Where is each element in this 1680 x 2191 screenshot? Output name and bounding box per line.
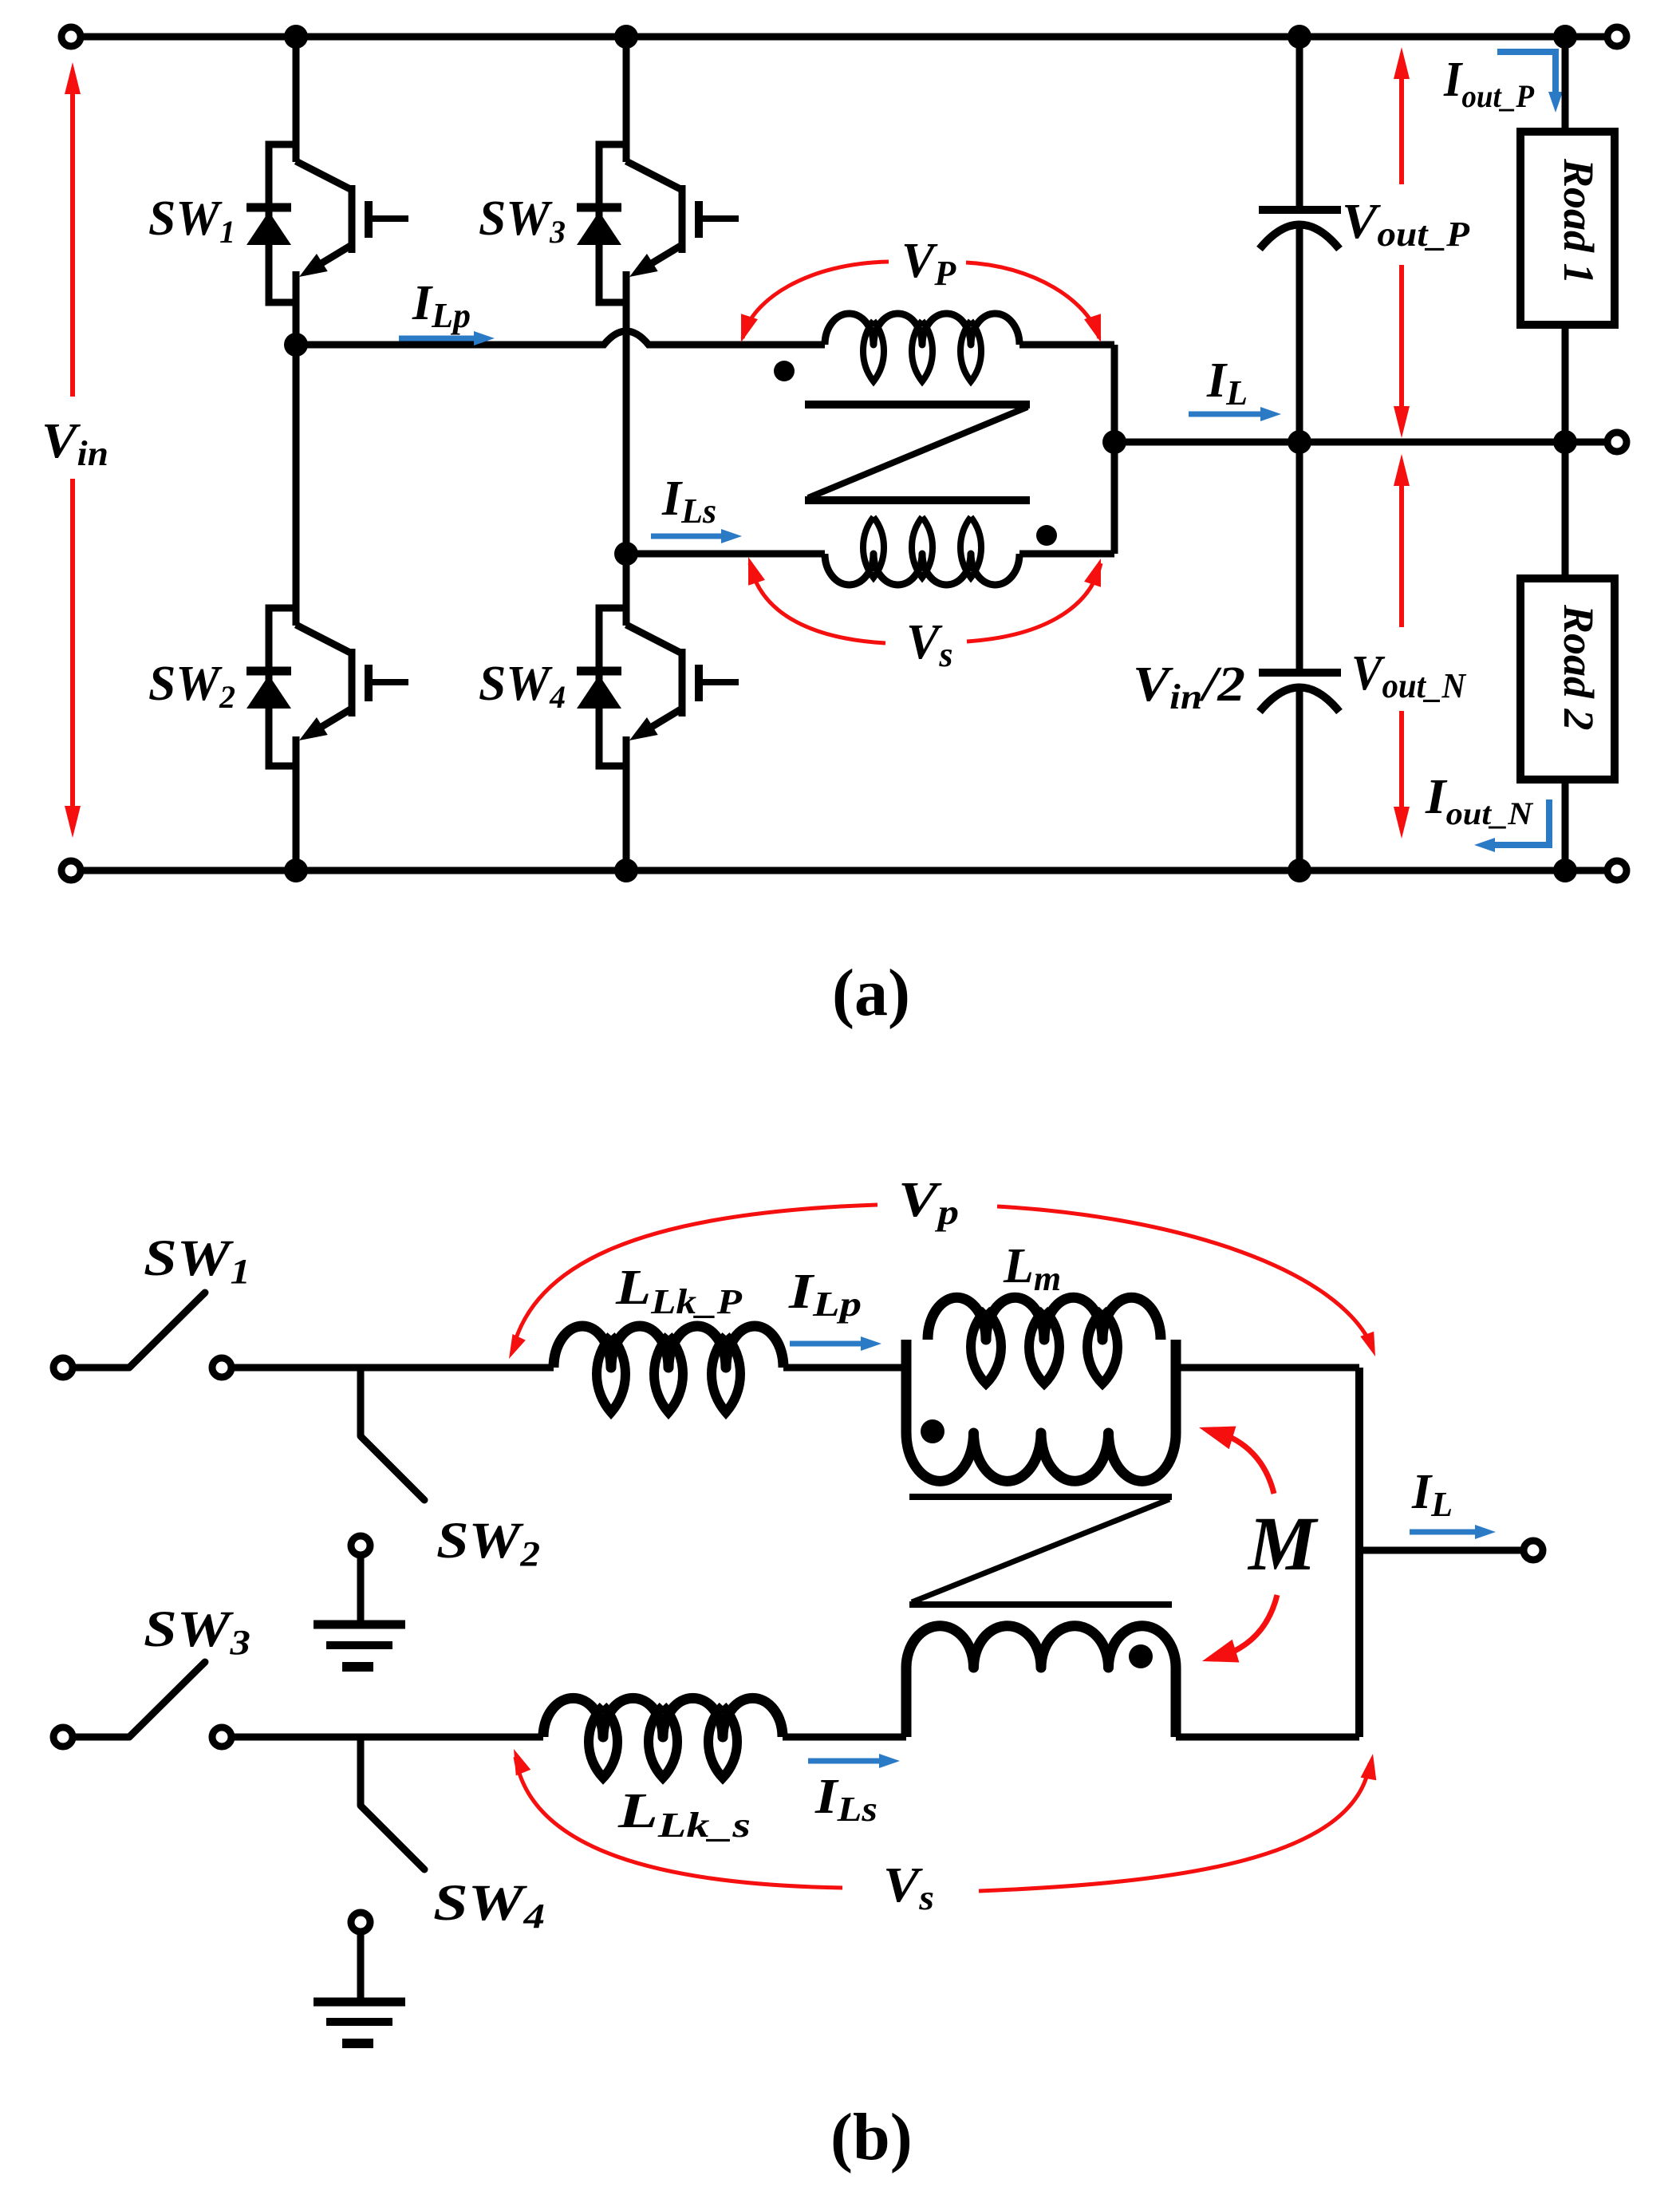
node: SW1/SW2 midpoint (primary feed) xyxy=(284,333,308,357)
ground symbol (SW4) xyxy=(314,2002,405,2043)
wire: top DC rail xyxy=(76,34,1612,41)
svg-text:SW3: SW3 xyxy=(479,191,566,250)
node: bottom rail junction at capacitor leg xyxy=(1288,859,1311,882)
svg-text:(a): (a) xyxy=(832,956,910,1030)
svg-text:Vs: Vs xyxy=(883,1858,934,1917)
svg-text:ILp: ILp xyxy=(412,276,471,335)
switch SW2 (fig b) xyxy=(351,1368,424,1555)
inductor: coupled inductor secondary winding (fig a) xyxy=(825,517,1019,585)
wire: Road 1 top leg xyxy=(1562,37,1569,132)
terminal: bottom-left input terminal xyxy=(61,861,81,880)
terminal: bottom-right output terminal xyxy=(1607,861,1627,880)
inductor Lm (magnetizing) xyxy=(928,1297,1161,1384)
svg-text:Road 2: Road 2 xyxy=(1555,604,1603,731)
wire: SW3 leg from top rail xyxy=(623,37,630,162)
svg-text:Vout_N: Vout_N xyxy=(1351,646,1467,705)
wire: SW3 emitter down through hop to secondary node xyxy=(623,271,630,554)
switch SW1 (fig b) xyxy=(53,1293,231,1377)
blue arrow IL (fig b) xyxy=(1410,1525,1496,1539)
node: bottom rail junction at SW4 leg xyxy=(614,859,638,882)
terminal: top-left input terminal xyxy=(61,27,81,46)
wire: L_Lk_s to secondary post xyxy=(783,1734,906,1741)
svg-text:ILs: ILs xyxy=(814,1770,877,1829)
polarity dot: primary (fig a) xyxy=(774,361,795,381)
red double arrow Vout_N xyxy=(1394,454,1410,839)
svg-text:Vp: Vp xyxy=(898,1173,959,1232)
wire: SW1 leg from top rail xyxy=(293,37,300,162)
transistor SW4 (IGBT with antiparallel diode) xyxy=(577,608,739,766)
svg-text:LLk_s: LLk_s xyxy=(617,1784,751,1845)
red arc Vs (fig b) xyxy=(507,1746,1381,1891)
svg-text:ILs: ILs xyxy=(661,472,716,531)
wire: primary winding feed with hop over SW3 leg xyxy=(296,331,825,345)
wire: SW4 to ground xyxy=(357,1932,365,2000)
wire: Lm left post xyxy=(901,1340,912,1433)
blue arrow ILs xyxy=(651,529,742,543)
wire: secondary right end to common vertical xyxy=(1019,551,1114,558)
svg-text:Vin/2: Vin/2 xyxy=(1133,657,1245,717)
wire: output vertical (fig b) xyxy=(1355,1368,1363,1737)
transistor SW2 (IGBT with antiparallel diode) xyxy=(246,608,408,766)
node: middle rail junction at capacitor leg xyxy=(1288,430,1311,454)
switch SW3 (fig b) xyxy=(53,1662,231,1747)
inductor: coupled inductor primary winding (fig a) xyxy=(825,314,1019,381)
svg-text:Iout_P: Iout_P xyxy=(1443,53,1534,114)
Vin red double arrow xyxy=(65,62,81,838)
svg-text:Vout_P: Vout_P xyxy=(1342,195,1470,254)
wire: capacitor Vout_P top leg xyxy=(1296,37,1303,210)
terminal: top-right output terminal xyxy=(1607,27,1627,46)
svg-text:VP: VP xyxy=(901,234,956,293)
svg-text:Road 1: Road 1 xyxy=(1555,158,1603,285)
blue elbow arrow Iout_N xyxy=(1474,799,1549,852)
blue arrow ILs (fig b) xyxy=(808,1754,900,1768)
inductor: ideal transformer primary winding (fig b) xyxy=(906,1433,1176,1481)
wire: SW1 to primary branch xyxy=(231,1364,554,1372)
svg-text:M: M xyxy=(1247,1501,1319,1586)
node: SW3/SW4 midpoint (secondary feed) xyxy=(614,542,638,566)
red arc Vs across secondary xyxy=(740,555,1110,643)
wire: L_Lk_P to Lm node xyxy=(783,1364,906,1372)
wire: Road 1 bottom leg xyxy=(1562,325,1569,442)
svg-text:Lm: Lm xyxy=(1003,1239,1061,1298)
wire: secondary node down to SW4 xyxy=(623,554,630,626)
polarity dot: primary (fig b) xyxy=(921,1419,945,1443)
node: transformer output node xyxy=(1102,430,1126,454)
svg-text:SW3: SW3 xyxy=(144,1601,250,1662)
node: top rail junction at capacitor leg xyxy=(1288,25,1311,49)
svg-text:IL: IL xyxy=(1411,1465,1453,1524)
wire: IL output lead xyxy=(1359,1547,1524,1554)
node: top rail junction at SW1 leg xyxy=(284,25,308,49)
svg-text:Vs: Vs xyxy=(906,615,952,674)
wire: phase node down to SW2 xyxy=(293,345,300,626)
wire: primary right end to common vertical xyxy=(1019,341,1114,349)
capacitor Vout_P xyxy=(1259,210,1341,249)
blue arrow ILp xyxy=(399,331,495,345)
svg-text:Vin: Vin xyxy=(41,414,108,473)
node: bottom rail junction at load leg xyxy=(1553,859,1577,882)
wire: SW2 emitter to bottom rail xyxy=(293,736,300,870)
svg-text:(b): (b) xyxy=(830,2100,913,2174)
core: transformer Z-core symbol (fig b) xyxy=(909,1497,1172,1605)
wire: Lm node to output vertical (top) xyxy=(1176,1364,1359,1372)
node: top rail junction at load leg xyxy=(1553,25,1577,49)
svg-text:ILp: ILp xyxy=(788,1265,862,1324)
transistor SW1 (IGBT with antiparallel diode) xyxy=(246,144,408,302)
capacitor Vout_N xyxy=(1259,673,1341,712)
wire: secondary right post xyxy=(1171,1668,1181,1737)
blue elbow arrow Iout_P xyxy=(1497,52,1563,113)
wire: SW2 to ground xyxy=(357,1555,365,1623)
resistor load Road 2 xyxy=(1520,578,1615,780)
switch SW4 (fig b) xyxy=(351,1737,424,1932)
wire: transformer common vertical xyxy=(1111,345,1118,554)
transistor SW3 (IGBT with antiparallel diode) xyxy=(577,144,739,302)
wire: secondary left post xyxy=(901,1668,912,1737)
wire: Road 2 bottom leg xyxy=(1562,780,1569,870)
core: transformer Z-core symbol (fig a) xyxy=(805,405,1030,500)
wire: SW3 to secondary branch xyxy=(231,1734,543,1741)
polarity dot: secondary (fig a) xyxy=(1036,525,1057,546)
wire: SW4 emitter to bottom rail xyxy=(623,736,630,870)
wire: capacitor Vout_N top leg xyxy=(1296,442,1303,673)
resistor load Road 1 xyxy=(1520,132,1615,325)
terminal: IL output (fig b) xyxy=(1524,1541,1543,1560)
red arc VP across primary xyxy=(733,262,1110,345)
svg-text:SW4: SW4 xyxy=(479,657,566,715)
wire: capacitor Vout_N bottom leg xyxy=(1296,689,1303,870)
node: bottom rail junction at SW2 leg xyxy=(284,859,308,882)
polarity dot: secondary (fig b) xyxy=(1129,1644,1153,1668)
svg-text:LLk_P: LLk_P xyxy=(615,1261,743,1321)
node: top rail junction at SW3 leg xyxy=(614,25,638,49)
wire: Road 2 top leg xyxy=(1562,442,1569,578)
node: middle rail junction at load leg xyxy=(1553,430,1577,454)
ground symbol (SW2) xyxy=(314,1624,405,1667)
wire: bottom DC rail xyxy=(76,867,1612,874)
svg-text:SW2: SW2 xyxy=(436,1512,540,1573)
inductor L_Lk_P xyxy=(554,1326,783,1412)
wire: Lm right post xyxy=(1171,1340,1181,1433)
wire: capacitor Vout_P bottom leg xyxy=(1296,226,1303,442)
red arc M (mutual coupling) xyxy=(1196,1416,1277,1673)
wire: SW1 emitter to phase node xyxy=(293,271,300,345)
svg-text:SW2: SW2 xyxy=(148,657,235,715)
terminal: middle-right output terminal xyxy=(1607,432,1627,452)
svg-text:SW4: SW4 xyxy=(433,1874,545,1936)
blue arrow IL xyxy=(1189,407,1281,421)
svg-text:SW1: SW1 xyxy=(148,191,235,250)
red arc Vp (fig b) xyxy=(503,1205,1382,1362)
wire: secondary winding feed xyxy=(626,551,825,558)
inductor L_Lk_s xyxy=(543,1698,783,1778)
inductor: ideal transformer secondary winding (fig b) xyxy=(906,1626,1176,1668)
svg-text:IL: IL xyxy=(1206,353,1248,413)
blue arrow ILp (fig b) xyxy=(790,1336,881,1351)
wire: secondary to output vertical (bottom) xyxy=(1176,1734,1359,1741)
svg-text:SW1: SW1 xyxy=(144,1230,250,1291)
wire: middle output rail xyxy=(1114,439,1612,446)
red double arrow Vout_P xyxy=(1394,47,1410,438)
